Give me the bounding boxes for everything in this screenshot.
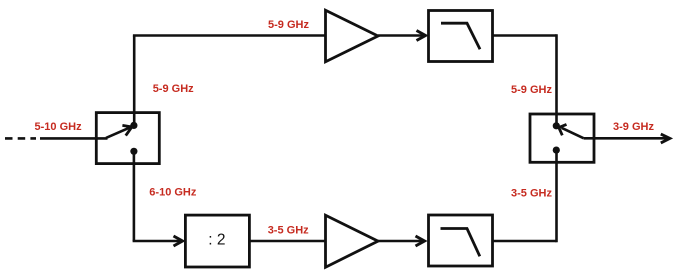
- svg-text:3-5 GHz: 3-5 GHz: [511, 187, 552, 199]
- amplifier A2: [326, 215, 379, 267]
- svg-text:3-9 GHz: 3-9 GHz: [613, 121, 654, 133]
- wire: SW1 top throw up to top rail: [133, 36, 136, 126]
- switch SW2 top throw contact: [553, 122, 560, 129]
- wire: A2 output to filter F2: [378, 240, 424, 243]
- wire: F2 output to corner: [493, 240, 557, 243]
- wire: F1 output to corner: [493, 34, 557, 37]
- divider U1 (:2) box: [185, 215, 249, 267]
- arrowhead into filter F2: [416, 236, 425, 246]
- amplifier A1: [326, 10, 379, 62]
- switch SW2 box: [530, 114, 594, 162]
- wire: top rail to amplifier A1: [133, 34, 326, 37]
- svg-text:5-10 GHz: 5-10 GHz: [35, 121, 83, 133]
- switch SW2 pole arm: [562, 128, 584, 138]
- wire: input line to switch SW1: [40, 137, 108, 140]
- arrowhead into divider U1: [174, 236, 183, 246]
- wire: up to switch SW2 bottom throw: [555, 150, 558, 242]
- filter F1 low-pass response symbol: [441, 23, 480, 49]
- filter F2 low-pass response symbol: [441, 229, 480, 257]
- switch SW1 top throw contact: [130, 122, 137, 129]
- wire: A1 output to filter F1: [378, 34, 425, 37]
- wire: SW1 bottom throw down to bottom rail: [133, 151, 136, 241]
- wire: dashed input stub: [5, 137, 36, 140]
- wire: down to switch SW2 top throw: [555, 34, 558, 126]
- svg-text:6-10 GHz: 6-10 GHz: [149, 187, 197, 199]
- svg-text:3-5 GHz: 3-5 GHz: [268, 225, 309, 237]
- filter F2 (low-pass) box: [429, 215, 493, 266]
- wire: bottom rail to divider arrow: [133, 240, 181, 243]
- filter F1 (low-pass) box: [429, 11, 493, 62]
- svg-text:5-9 GHz: 5-9 GHz: [153, 83, 194, 95]
- switch SW2 bottom throw contact: [553, 147, 560, 154]
- svg-text:5-9 GHz: 5-9 GHz: [268, 19, 309, 31]
- arrowhead output: [661, 134, 670, 143]
- svg-text:5-9 GHz: 5-9 GHz: [511, 84, 552, 96]
- wire: SW2 output: [584, 137, 669, 140]
- wire: U1 output to amplifier A2: [249, 240, 325, 243]
- switch SW1 box: [96, 113, 159, 164]
- switch SW1 arm arrowhead: [122, 125, 131, 135]
- switch SW1 bottom throw contact: [130, 148, 137, 155]
- switch SW2 arm arrowhead: [559, 124, 567, 135]
- svg-text:: 2: : 2: [208, 231, 225, 248]
- arrowhead into filter F1: [417, 31, 426, 41]
- switch SW1 pole arm: [106, 127, 131, 138]
